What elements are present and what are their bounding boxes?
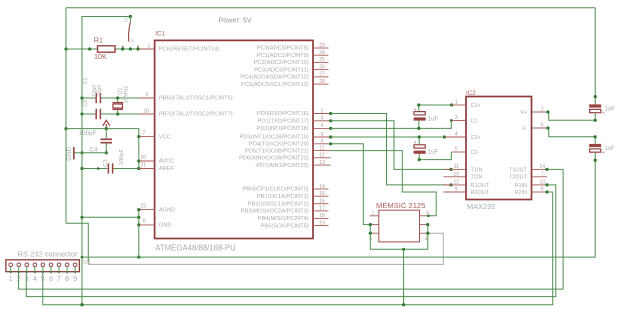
wire 5V top border rail [66, 7, 595, 9]
wire PD3 to C2+ via cap C7 top [331, 136, 445, 138]
capacitor C6 1uF upper near MAX232 [414, 112, 425, 115]
node MEMSIC pin6 wire join [427, 215, 430, 218]
node VCC column / pin20 junction [137, 159, 140, 162]
svg-text:6: 6 [541, 123, 544, 129]
svg-text:5: 5 [321, 132, 324, 138]
svg-text:22: 22 [141, 204, 147, 210]
svg-text:23: 23 [319, 43, 325, 49]
svg-text:25: 25 [319, 57, 325, 63]
svg-text:6: 6 [321, 139, 324, 145]
wire R2IN to GND rail [43, 192, 553, 305]
svg-text:PC2(ADC2/PCINT10): PC2(ADC2/PCINT10) [254, 60, 309, 66]
ground symbol GND [73, 147, 75, 160]
svg-text:8: 8 [541, 187, 544, 193]
pin stubs IC1 right PC [313, 47, 329, 49]
svg-text:PD4(T0/XCK/PCINT20): PD4(T0/XCK/PCINT20) [249, 142, 309, 148]
node C1+ stub end [450, 103, 453, 106]
node GND rail bottom junction [80, 303, 83, 306]
svg-text:GND: GND [66, 146, 73, 160]
svg-text:AREF: AREF [159, 166, 175, 172]
svg-text:PB0(ICP1/CLKO/PCINT0): PB0(ICP1/CLKO/PCINT0) [243, 187, 309, 193]
node PD3 junction [329, 135, 332, 138]
node PD2 junction [329, 127, 332, 130]
node MEMSIC ground on pin5 rail [402, 303, 405, 306]
resistor R1 [98, 46, 116, 52]
svg-text:24: 24 [319, 50, 325, 56]
svg-text:1uF: 1uF [605, 146, 616, 152]
svg-text:T2OUT: T2OUT [509, 175, 528, 181]
svg-text:26: 26 [319, 64, 325, 70]
wire XTAL2 row with C2 [82, 113, 96, 115]
svg-text:3: 3 [321, 116, 324, 122]
node GND rail / DB9 pin5 junction [80, 303, 83, 306]
svg-text:4: 4 [33, 274, 37, 283]
svg-text:PD1(TXD/PCINT17): PD1(TXD/PCINT17) [257, 119, 308, 125]
connector RS232 X1 box [6, 260, 80, 272]
pin stub MEMSIC 2 mid left [370, 224, 379, 226]
svg-text:13: 13 [319, 160, 325, 166]
svg-text:11: 11 [454, 164, 459, 170]
svg-text:ATMEGA48/88/168-PU: ATMEGA48/88/168-PU [155, 243, 236, 252]
svg-text:PB4(MISO/PCINT4): PB4(MISO/PCINT4) [258, 216, 309, 222]
svg-text:10K: 10K [94, 52, 107, 61]
node AGND wire junction [137, 216, 140, 219]
svg-text:4: 4 [321, 123, 324, 129]
supply symbol VCC arrow [103, 120, 110, 126]
svg-text:PB6(XTAL1/TOSC1/PCINT6): PB6(XTAL1/TOSC1/PCINT6) [159, 96, 233, 102]
svg-text:V+: V+ [520, 110, 527, 116]
pin stub MEMSIC 1 top left [370, 215, 379, 217]
wire 5V jog to grey feed [66, 223, 88, 261]
svg-text:2: 2 [17, 274, 21, 283]
svg-text:RS 232 connector: RS 232 connector [18, 250, 79, 259]
svg-text:R1: R1 [94, 35, 103, 44]
wire XTAL1 row with C1 [82, 97, 96, 99]
svg-text:VCC: VCC [159, 134, 171, 140]
svg-text:PB5(SCK/PCINT5): PB5(SCK/PCINT5) [261, 223, 309, 229]
node MEMSIC left mid pin junction [369, 223, 372, 226]
svg-text:PC6(/RESET/PCINT14): PC6(/RESET/PCINT14) [159, 47, 219, 53]
svg-text:22pF: 22pF [97, 84, 103, 97]
svg-text:R2OUT: R2OUT [471, 190, 490, 196]
wire C7 top stub to PD3/C2+ wire [418, 137, 420, 145]
svg-text:PD6(AIN0/OC0A/PCINT22): PD6(AIN0/OC0A/PCINT22) [239, 156, 309, 162]
svg-text:19: 19 [319, 220, 325, 226]
wire RESET rail from 5V through R1 to IC1 pin 1 [66, 48, 98, 50]
capacitor C5 1uF right upper [589, 104, 601, 107]
capacitor C7 1uF lower near MAX232 [414, 145, 425, 148]
svg-text:2: 2 [541, 107, 544, 113]
crystal Q1 [117, 98, 119, 103]
wire 5V feed to MEMSIC VDD (grey net) [88, 233, 443, 264]
node R1 right terminal [121, 47, 124, 50]
node V- stub end [546, 126, 549, 129]
op IC1 ATMEGA box [155, 40, 313, 238]
svg-text:PD2(INT0/PCINT18): PD2(INT0/PCINT18) [257, 126, 309, 132]
svg-text:PB1(OC1A/PCINT1): PB1(OC1A/PCINT1) [257, 194, 309, 200]
svg-text:AGND: AGND [159, 207, 175, 213]
svg-text:PC3(ADC3/PCINT11): PC3(ADC3/PCINT11) [254, 67, 309, 73]
wire C4 top stub [105, 129, 107, 140]
svg-text:10: 10 [130, 38, 135, 43]
node GND rail / cap4 return junction [81, 256, 84, 259]
node PD0 junction [329, 112, 332, 115]
node V+ stub end [546, 110, 549, 113]
svg-text:100pF: 100pF [79, 130, 97, 137]
svg-text:R1IN: R1IN [514, 183, 527, 189]
pin stubs IC1 right PD [313, 113, 331, 115]
wire PD2 to C1- via cap C6 bottom [331, 121, 452, 129]
svg-text:4: 4 [455, 132, 458, 138]
svg-text:T2IN: T2IN [471, 175, 483, 181]
node C8 top junction [594, 135, 597, 138]
node PD1 junction [329, 119, 332, 122]
wire switch S1 top to GND rail [82, 17, 130, 50]
svg-text:PD0(RXD/PCINT16): PD0(RXD/PCINT16) [257, 111, 309, 117]
svg-text:7: 7 [57, 274, 61, 283]
switch S1 lever [129, 17, 131, 23]
svg-text:C1+: C1+ [471, 103, 481, 109]
svg-text:C2-: C2- [471, 150, 480, 156]
node R1 left terminal [88, 47, 91, 50]
svg-text:+: + [414, 141, 417, 146]
svg-text:5: 5 [455, 147, 458, 153]
node C8 bottom junction [594, 159, 597, 162]
wire 5V left rail [65, 8, 67, 224]
node R1OUT junction [449, 183, 452, 186]
svg-text:R2IN: R2IN [514, 190, 527, 196]
svg-text:6: 6 [426, 210, 429, 216]
svg-text:IC2: IC2 [466, 90, 476, 97]
node MEMSIC left bottom pin junction [369, 232, 372, 235]
svg-text:2: 2 [321, 108, 324, 114]
wire 5V right drop to C5 [594, 8, 596, 97]
node C6 bottom junction [417, 127, 420, 130]
svg-text:8: 8 [65, 274, 69, 283]
svg-text:C1: C1 [83, 77, 89, 84]
svg-text:1: 1 [372, 210, 375, 216]
node switch top junction [129, 15, 132, 18]
svg-text:Power: 5V: Power: 5V [219, 15, 252, 24]
node C7 top junction [418, 135, 421, 138]
node 5V to R1 junction [64, 47, 67, 50]
node R2IN stub end [545, 190, 548, 193]
svg-text:11: 11 [319, 145, 324, 151]
svg-text:16: 16 [319, 199, 325, 205]
node VCC arrow junction [105, 127, 108, 130]
svg-text:14: 14 [319, 184, 325, 190]
node MEMSIC right mid pin junction [426, 223, 429, 226]
node GND pin8 junction [137, 223, 140, 226]
svg-text:IC1: IC1 [155, 31, 165, 38]
node C6 top junction [417, 103, 420, 106]
svg-text:MEMSIC 2125: MEMSIC 2125 [376, 201, 425, 210]
node switch left contact [121, 47, 124, 50]
svg-text:U1: U1 [83, 259, 91, 266]
svg-text:C4: C4 [90, 146, 98, 153]
wire R1IN to DB9 pin3 [26, 185, 556, 297]
node switch pole [129, 47, 132, 50]
svg-text:PB7(XTAL2/TOSC2/PCINT7): PB7(XTAL2/TOSC2/PCINT7) [159, 112, 233, 118]
node PD4 junction [329, 142, 332, 145]
wire MEMSIC ground drop to DB9 pin5 rail [403, 249, 405, 304]
wire PD1 TXD to T1IN [331, 121, 451, 170]
op IC2 MAX232 box [466, 97, 532, 200]
op MEMSIC 2125 box [379, 210, 420, 242]
svg-text:1uF: 1uF [605, 107, 616, 113]
svg-text:3: 3 [25, 274, 29, 283]
svg-text:PD7(AIN1/PCINT23): PD7(AIN1/PCINT23) [256, 163, 309, 169]
svg-text:8: 8 [143, 219, 146, 225]
svg-text:21: 21 [141, 163, 147, 169]
node C1- stub end [450, 119, 453, 122]
capacitor C8 1uF right lower [589, 144, 601, 147]
svg-text:1: 1 [455, 100, 458, 106]
svg-text:1uF: 1uF [428, 117, 439, 123]
wire T1OUT to DB9 pin2 [19, 169, 564, 289]
node AGND pin22 junction [137, 208, 140, 211]
svg-text:PB2(SS/OC1B/PCINT2): PB2(SS/OC1B/PCINT2) [248, 201, 309, 207]
svg-text:V-: V- [522, 126, 527, 132]
svg-text:1: 1 [9, 274, 13, 283]
svg-text:S1: S1 [124, 16, 129, 22]
wire GND symbol to C4 [82, 152, 106, 154]
wire AGND GND column [138, 210, 140, 258]
svg-text:12: 12 [319, 153, 325, 159]
svg-text:13: 13 [540, 179, 546, 185]
svg-text:28: 28 [319, 79, 325, 85]
node C4 bottom junction [105, 151, 108, 154]
wire C6 top stub to C1+ [419, 105, 452, 112]
node crystal bottom junction [116, 112, 119, 115]
node C7 bottom junction [418, 158, 421, 161]
node switch right contact [136, 47, 139, 50]
switch S1 contact ticks [122, 46, 124, 49]
svg-text:5: 5 [41, 274, 45, 283]
node VCC column / pin7 junction [137, 135, 140, 138]
pin stub MEMSIC 4 bottom right [420, 232, 429, 234]
svg-text:15: 15 [319, 191, 325, 197]
connector RS232 pin circles and stubs [9, 263, 13, 267]
capacitor C3 plates [107, 163, 109, 173]
pin stub MEMSIC 3 bottom left [370, 232, 379, 234]
node crystal top junction [116, 96, 119, 99]
svg-text:C2: C2 [83, 100, 89, 107]
pin stubs IC1 right PB [313, 188, 329, 190]
svg-text:7: 7 [143, 131, 146, 137]
svg-text:6: 6 [49, 274, 53, 283]
svg-text:20: 20 [141, 155, 147, 161]
node MEMSIC ground center junction [402, 248, 405, 251]
svg-text:AVCC: AVCC [159, 159, 174, 165]
svg-text:18: 18 [319, 213, 325, 219]
node C2+ junction [443, 135, 446, 138]
pin stubs IC1 left [139, 48, 155, 50]
capacitor C1 plates [95, 93, 97, 103]
svg-text:T1IN: T1IN [471, 167, 483, 173]
svg-text:12: 12 [454, 179, 460, 185]
wire C8 bottom stub to GND return [82, 152, 595, 257]
wire V+ jog to C5 bottom [548, 112, 595, 120]
wire MEMSIC ground loop [370, 225, 428, 250]
svg-text:+: + [414, 108, 417, 113]
svg-text:7: 7 [541, 171, 544, 177]
wire C7 bottom stub to C2- [419, 152, 451, 160]
node GND rail / AGND wire junction [80, 216, 83, 219]
node GND column to cap4 return wire [137, 256, 140, 259]
pin stub MEMSIC 5 mid right [420, 224, 429, 226]
wire C5 bottom stub to V+ wire [594, 113, 596, 121]
svg-text:PC5(ADC5/SCL/PCINT13): PC5(ADC5/SCL/PCINT13) [241, 82, 309, 88]
svg-text:C1-: C1- [471, 118, 480, 124]
svg-text:MAX232: MAX232 [467, 202, 495, 211]
pin stubs IC2 left [452, 104, 466, 106]
node C5 top junction [594, 95, 597, 98]
svg-text:PD5(T1/OC0B/PCINT21): PD5(T1/OC0B/PCINT21) [245, 148, 309, 154]
wire AGND row [82, 216, 139, 218]
wire AREF row with C3 [82, 168, 108, 170]
capacitor C2 plates [95, 109, 97, 119]
svg-text:17: 17 [319, 206, 325, 212]
node GND rail / C1 junction [80, 96, 83, 99]
node T1IN junction [449, 168, 452, 171]
wire GND rail vertical [81, 49, 83, 305]
node C5 bottom junction [594, 119, 597, 122]
wire C4 bottom stub [105, 143, 107, 153]
pin stubs IC2 right [532, 111, 548, 113]
wire PD4 to MEMSIC left middle pin [331, 144, 371, 225]
svg-text:100pF: 100pF [119, 149, 125, 166]
svg-text:R1OUT: R1OUT [471, 183, 490, 189]
svg-text:9: 9 [455, 187, 458, 193]
svg-text:PC0(ADC0/PCINT8): PC0(ADC0/PCINT8) [257, 46, 309, 52]
svg-text:16MHz: 16MHz [124, 86, 130, 104]
svg-text:14: 14 [540, 164, 546, 170]
node T1OUT stub end [545, 168, 548, 171]
wire C5 top stub from 5V [594, 97, 596, 105]
svg-text:27: 27 [319, 72, 325, 78]
svg-text:PC1(ADC1/PCINT9): PC1(ADC1/PCINT9) [257, 53, 309, 59]
svg-text:GND: GND [159, 223, 172, 229]
wire C8 top stub to V- wire [594, 137, 596, 144]
svg-text:PD3(INT1/OC2B/PCINT19): PD3(INT1/OC2B/PCINT19) [239, 135, 308, 141]
capacitor C4 plates [101, 138, 113, 140]
svg-text:10: 10 [454, 171, 460, 177]
svg-text:1uF: 1uF [428, 150, 439, 156]
node MEMSIC right bottom pin junction [426, 232, 429, 235]
pin stub MEMSIC 6 top right [420, 215, 429, 217]
svg-text:C2+: C2+ [471, 135, 481, 141]
node VCC column / pin21 junction [137, 167, 140, 170]
svg-text:PB3(MOSI/OC2A/PCINT3): PB3(MOSI/OC2A/PCINT3) [241, 209, 309, 215]
svg-text:3: 3 [455, 115, 458, 121]
svg-text:9: 9 [73, 274, 77, 283]
node GND rail / GND symbol junction [80, 151, 83, 154]
wire C6 bottom stub to PD2 wire [418, 121, 420, 129]
node GND rail / C3 junction [80, 167, 83, 170]
node R1IN stub end [545, 183, 548, 186]
node 5V rail / VCC wire junction [64, 127, 67, 130]
node C3 left stub [97, 167, 100, 170]
wire PD5 to MEMSIC top right pin [331, 151, 437, 216]
node GND rail / C2 junction [80, 112, 83, 115]
svg-text:T1OUT: T1OUT [509, 167, 528, 173]
wire V- jog to C8 top [548, 128, 595, 137]
wire VCC row to IC1 pin7 [66, 129, 139, 169]
svg-text:PC4(ADC4/SDA/PCINT12): PC4(ADC4/SDA/PCINT12) [240, 75, 308, 81]
wire PD0 RXD to R1OUT [331, 114, 451, 185]
